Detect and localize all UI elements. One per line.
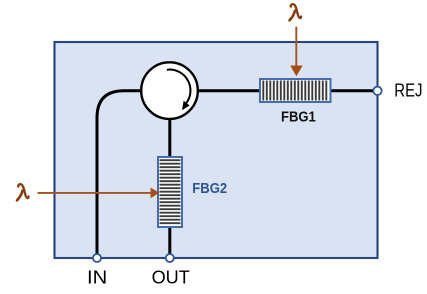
wire: circulator left port curving down to IN [97, 91, 143, 254]
svg-text:FBG2: FBG2 [192, 181, 227, 197]
svg-text:FBG1: FBG1 [281, 109, 316, 125]
port IN [93, 254, 101, 262]
circulator U1 [141, 62, 198, 119]
svg-text:IN: IN [87, 268, 107, 288]
port REJ [373, 87, 381, 95]
svg-text:OUT: OUT [152, 268, 190, 288]
port OUT [166, 254, 174, 262]
FBG1 [260, 79, 331, 102]
FBG2 [158, 157, 182, 227]
wire: circulator bottom down to OUT [168, 118, 171, 254]
arrow: lambda into FBG2 [38, 188, 160, 199]
svg-text:REJ: REJ [394, 81, 422, 101]
enclosure box [55, 42, 378, 258]
lambda label top [290, 4, 302, 20]
arrow: lambda into FBG1 [290, 27, 303, 77]
lambda label left [17, 184, 29, 200]
wire: circulator right to REJ port [196, 89, 374, 92]
